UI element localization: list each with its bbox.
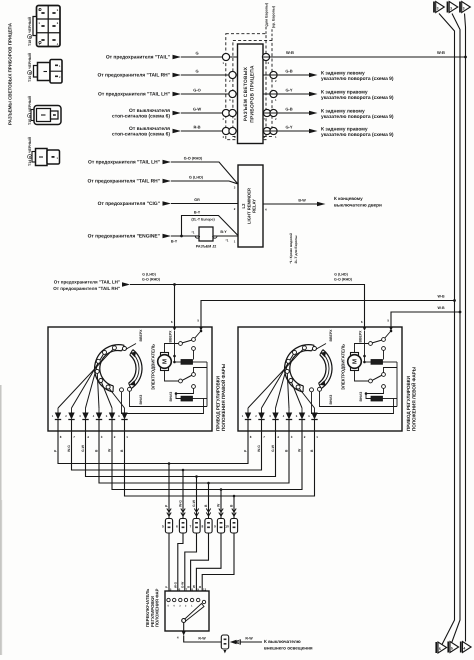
wire G-Y to rear turn signal row 3: [263, 87, 394, 101]
wire R-W to exterior light switch: [230, 637, 313, 651]
connector T15 label: [27, 96, 32, 125]
svg-text:2L-T для Европы: 2L-T для Европы: [294, 235, 298, 263]
wire B-Y from ENGINE fuse: [88, 234, 238, 244]
svg-text:От предохранителя "CIG": От предохранителя "CIG": [98, 201, 160, 207]
ground wire W-B vertical 3: [465, 14, 466, 642]
svg-text:стоп-сигналов (схема 6): стоп-сигналов (схема 6): [112, 113, 170, 119]
scan edge artifact: [0, 385, 3, 655]
svg-text:*1: Кроме моделей: *1: Кроме моделей: [289, 233, 293, 264]
svg-text:*1: *1: [192, 230, 195, 234]
svg-text:5: 5: [439, 647, 441, 651]
dashed stub to Europe label: [266, 27, 272, 40]
wire B-W to door switch: [263, 196, 382, 211]
wire G-Y to rear turn signal row 5: [263, 124, 394, 138]
svg-text:L2: L2: [241, 203, 246, 209]
svg-text:R-B: R-B: [193, 124, 200, 129]
wire P to leveling switch pin: [168, 533, 170, 591]
svg-text:RELAY: RELAY: [252, 199, 257, 213]
wire GR from CIG fuse: [98, 198, 238, 211]
svg-text:РАЗЪЕМЫ СВЕТОВЫХ ПРИБОРОВ ПРИЦ: РАЗЪЕМЫ СВЕТОВЫХ ПРИБОРОВ ПРИЦЕПА: [8, 22, 13, 125]
svg-text:указателю поворота (схема 9): указателю поворота (схема 9): [321, 76, 394, 82]
trailer connector pins right: [262, 53, 277, 139]
svg-text:Т14: Т14: [28, 160, 32, 166]
svg-text:(кр. Европы): (кр. Европы): [271, 6, 275, 28]
wire G-W drop to connector 7: [192, 477, 199, 519]
svg-text:3: 3: [463, 6, 465, 10]
svg-text:От выключателя: От выключателя: [129, 108, 170, 114]
svg-text:B-Y: B-Y: [220, 230, 227, 234]
ground wire W-B vertical 1: [439, 14, 455, 646]
wire B drop to connector 8: [204, 483, 211, 519]
svg-text:G: G: [195, 68, 198, 73]
wire B to leveling switch pin: [191, 533, 209, 591]
svg-text:G-O (RHD): G-O (RHD): [142, 277, 161, 281]
svg-text:(для Европы): (для Европы): [264, 3, 268, 27]
svg-text:G-O (RHD): G-O (RHD): [184, 156, 203, 160]
wire W drop to connector 9: [217, 490, 224, 519]
svg-text:От предохранителя "TAIL": От предохранителя "TAIL": [106, 55, 170, 61]
svg-text:От выключателя: От выключателя: [129, 126, 170, 132]
svg-text:3: 3: [437, 6, 439, 10]
svg-text:G-W: G-W: [193, 106, 201, 111]
svg-text:указателю поворота (схема 9): указателю поворота (схема 9): [321, 132, 394, 138]
inline connector 2 (R-W): [221, 635, 228, 653]
svg-text:От предохранителя "TAIL RH": От предохранителя "TAIL RH": [53, 286, 120, 291]
connector T16 label: [27, 53, 32, 82]
wire W-G to leveling switch pin: [178, 533, 183, 591]
connector T18 label: [27, 17, 32, 46]
svg-text:W: W: [192, 585, 196, 588]
svg-text:5: 5: [162, 525, 164, 529]
connector J2: [192, 227, 229, 248]
wire P drop to connector 5: [165, 464, 172, 519]
inline connector 5: [162, 519, 173, 534]
label right headlight drive (vertical): [215, 363, 225, 431]
svg-text:3: 3: [450, 6, 452, 10]
wire from fuse row 5 (R-B): [112, 124, 237, 137]
connector T16 (2-pin): [34, 60, 63, 84]
svg-text:W-B: W-B: [437, 294, 445, 298]
svg-text:От предохранителя "ENGINE": От предохранителя "ENGINE": [88, 234, 160, 240]
svg-text:Т18: Т18: [28, 40, 32, 46]
svg-text:G-O: G-O: [193, 87, 201, 92]
wire R-W to lighting switch: [177, 632, 221, 643]
wire from fuse row 4 (G-W): [112, 106, 237, 119]
svg-text:ПОЛОЖЕНИЯ ПРАВОЙ ФАРЫ: ПОЛОЖЕНИЯ ПРАВОЙ ФАРЫ: [220, 363, 226, 431]
wire G/G-O from TAIL fuses to actuators: [53, 273, 364, 327]
svg-text:W-G: W-G: [174, 581, 178, 588]
trailer lighting connector block: [238, 44, 264, 144]
svg-text:G: G: [195, 50, 198, 55]
wire W-G bus level 2: [72, 431, 262, 471]
svg-text:R-W: R-W: [245, 637, 253, 641]
wire from fuse row 2 (G): [98, 68, 238, 78]
svg-text:LIGHT REMINDER: LIGHT REMINDER: [246, 188, 251, 224]
svg-text:6: 6: [176, 525, 178, 529]
svg-text:От предохранителя "TAIL RH": От предохранителя "TAIL RH": [88, 179, 161, 185]
wire from fuse row 1 (G): [106, 50, 238, 60]
label except Europe (vertical): [271, 6, 275, 28]
svg-text:(2L-T Europe): (2L-T Europe): [191, 217, 215, 221]
svg-text:W-B: W-B: [437, 50, 445, 55]
sheet arrow out top 3: [460, 2, 470, 13]
svg-text:B-W: B-W: [298, 198, 306, 202]
svg-text:РАЗЪЕМ СВЕТОВЫХ: РАЗЪЕМ СВЕТОВЫХ: [243, 66, 249, 121]
svg-text:9: 9: [214, 525, 216, 529]
wire G-B to rear turn signal row 4: [263, 106, 394, 120]
svg-text:К концевому: К концевому: [334, 196, 363, 201]
svg-text:К заднему левому: К заднему левому: [321, 108, 365, 114]
label left headlight drive (vertical): [406, 366, 416, 431]
wire W-G drop to connector 6: [179, 470, 186, 519]
wire W-B right actuator pin 5 to ground: [201, 294, 456, 327]
inline connector 8: [202, 519, 213, 534]
actuator right headlight position drive: [48, 319, 212, 453]
svg-text:ЧЕРНЫЙ: ЧЕРНЫЙ: [27, 53, 32, 69]
svg-text:G (LHD): G (LHD): [334, 273, 348, 277]
svg-text:W-G: W-G: [179, 500, 183, 507]
svg-text:P: P: [165, 586, 169, 588]
svg-text:К заднему правому: К заднему правому: [321, 89, 368, 95]
svg-text:8: 8: [202, 525, 204, 529]
svg-text:РАЗЪЕМ J2: РАЗЪЕМ J2: [196, 244, 216, 248]
svg-text:ПРИБОРОВ ПРИЦЕПА: ПРИБОРОВ ПРИЦЕПА: [250, 65, 256, 123]
svg-text:G-O (RHD): G-O (RHD): [334, 277, 353, 281]
ground wire W-B vertical 2: [451, 14, 460, 645]
connector T18 (6-pin): [33, 6, 60, 47]
svg-text:B-Y: B-Y: [194, 210, 201, 214]
svg-text:В: В: [28, 156, 32, 158]
sheet arrow out bottom 1: [436, 642, 446, 653]
label leveling switch (vertical): [145, 588, 159, 627]
sheet arrow out bottom 2: [448, 642, 458, 653]
svg-text:От предохранителя "TAIL LH": От предохранителя "TAIL LH": [98, 92, 170, 98]
svg-text:G-B: G-B: [285, 106, 292, 111]
svg-text:W-B: W-B: [437, 306, 445, 310]
svg-text:7: 7: [190, 525, 192, 529]
svg-text:*1: *1: [226, 239, 229, 243]
svg-text:От предохранителя "TAIL RH": От предохранителя "TAIL RH": [98, 73, 171, 79]
sheet arrow out top 1: [434, 2, 444, 13]
svg-text:В: В: [28, 36, 32, 38]
svg-text:5: 5: [451, 646, 453, 650]
svg-text:ПРИВОД РЕГУЛИРОВКИ: ПРИВОД РЕГУЛИРОВКИ: [215, 376, 220, 431]
wire W-B trailer row to ground bundle: [263, 50, 467, 58]
sheet arrow out top 2: [448, 2, 458, 13]
svg-text:указателю поворота (схема 9): указателю поворота (схема 9): [321, 114, 394, 120]
svg-text:10: 10: [225, 525, 229, 529]
wire W-B left actuator pin 5 to ground: [391, 306, 461, 327]
svg-text:G-Y: G-Y: [285, 124, 292, 129]
headlight leveling switch: [165, 591, 209, 631]
inline connector 7: [190, 519, 201, 534]
svg-text:G (LHD): G (LHD): [189, 175, 204, 179]
svg-text:4: 4: [463, 646, 465, 650]
wire W to leveling switch pin: [196, 533, 221, 591]
svg-text:От предохранителя "TAIL LH": От предохранителя "TAIL LH": [88, 160, 160, 166]
inline connector 9: [214, 519, 225, 534]
svg-text:W-B: W-B: [286, 50, 294, 55]
wire W bus level 5: [112, 431, 302, 491]
svg-text:GR: GR: [194, 198, 200, 202]
svg-text:Т16: Т16: [28, 76, 32, 82]
dashed box (except Europe): [233, 40, 272, 136]
note except 2L-T Europe models (vertical): [289, 233, 298, 264]
actuator left headlight position drive: [238, 319, 402, 453]
svg-text:К заднему правому: К заднему правому: [321, 126, 368, 132]
svg-text:B-Y: B-Y: [171, 240, 178, 244]
svg-text:G-W: G-W: [192, 499, 196, 507]
wire B bus level 4: [99, 431, 289, 484]
svg-text:К заднему левому: К заднему левому: [321, 70, 365, 76]
switch pin labels: [165, 581, 207, 591]
svg-text:ПРИВОД РЕГУЛИРОВКИ: ПРИВОД РЕГУЛИРОВКИ: [406, 376, 411, 431]
wire from fuse row 3 (G-O): [98, 87, 237, 97]
wire B-Y bypass (2L-T Europe): [182, 210, 238, 236]
label for Europe (vertical): [264, 3, 268, 27]
wire G-O (RHD) from TAIL LH fuse: [88, 156, 237, 183]
dashed box (for Europe): [226, 34, 266, 140]
sheet arrow out bottom 3: [461, 642, 471, 653]
title trailer lighting connectors (vertical): [8, 22, 13, 125]
svg-text:G-W: G-W: [181, 582, 185, 588]
connector T14 label: [27, 137, 32, 166]
svg-text:внешнего освещения: внешнего освещения: [264, 645, 313, 650]
wire P bus level 1: [58, 431, 248, 465]
svg-text:выключателю двери: выключателю двери: [334, 203, 382, 208]
wire G-B to rear turn signal row 2: [263, 68, 394, 82]
svg-text:ЧЕРНЫЙ: ЧЕРНЫЙ: [27, 17, 32, 33]
wire G (LHD) from TAIL RH fuse: [88, 175, 238, 189]
wire B drop to connector 10: [230, 496, 237, 519]
svg-text:R-W: R-W: [198, 637, 206, 641]
inline connector 10: [225, 519, 237, 534]
svg-text:ЧЕРНЫЙ: ЧЕРНЫЙ: [27, 137, 32, 153]
svg-text:ПОЛОЖЕНИЯ ФАР: ПОЛОЖЕНИЯ ФАР: [155, 588, 160, 627]
connector T14 (1-pin): [32, 149, 60, 166]
relay L2 light reminder: [238, 165, 263, 247]
inline connector 6: [176, 519, 187, 534]
svg-text:G-Y: G-Y: [285, 87, 292, 92]
wire drop to right actuator pin 6: [173, 283, 176, 327]
trailer connector pins left: [222, 53, 236, 139]
svg-text:стоп-сигналов (схема 6): стоп-сигналов (схема 6): [112, 131, 170, 137]
wire B to leveling switch pin: [202, 533, 234, 591]
svg-text:G-B: G-B: [285, 68, 292, 73]
svg-text:В: В: [28, 72, 32, 74]
svg-text:ПОЛОЖЕНИЯ ЛЕВОЙ ФАРЫ: ПОЛОЖЕНИЯ ЛЕВОЙ ФАРЫ: [410, 366, 416, 431]
wire G-W bus level 3: [86, 431, 276, 478]
svg-text:От предохранителя "TAIL LH": От предохранителя "TAIL LH": [54, 279, 120, 284]
svg-text:К выключателю: К выключателю: [264, 639, 301, 644]
svg-text:указателю поворота (схема 9): указателю поворота (схема 9): [321, 95, 394, 101]
wire B bus level 6: [125, 431, 315, 497]
connector T15 (1-pin): [31, 106, 61, 125]
svg-text:G (LHD): G (LHD): [142, 273, 156, 277]
wire G-W to leveling switch pin: [185, 533, 197, 591]
